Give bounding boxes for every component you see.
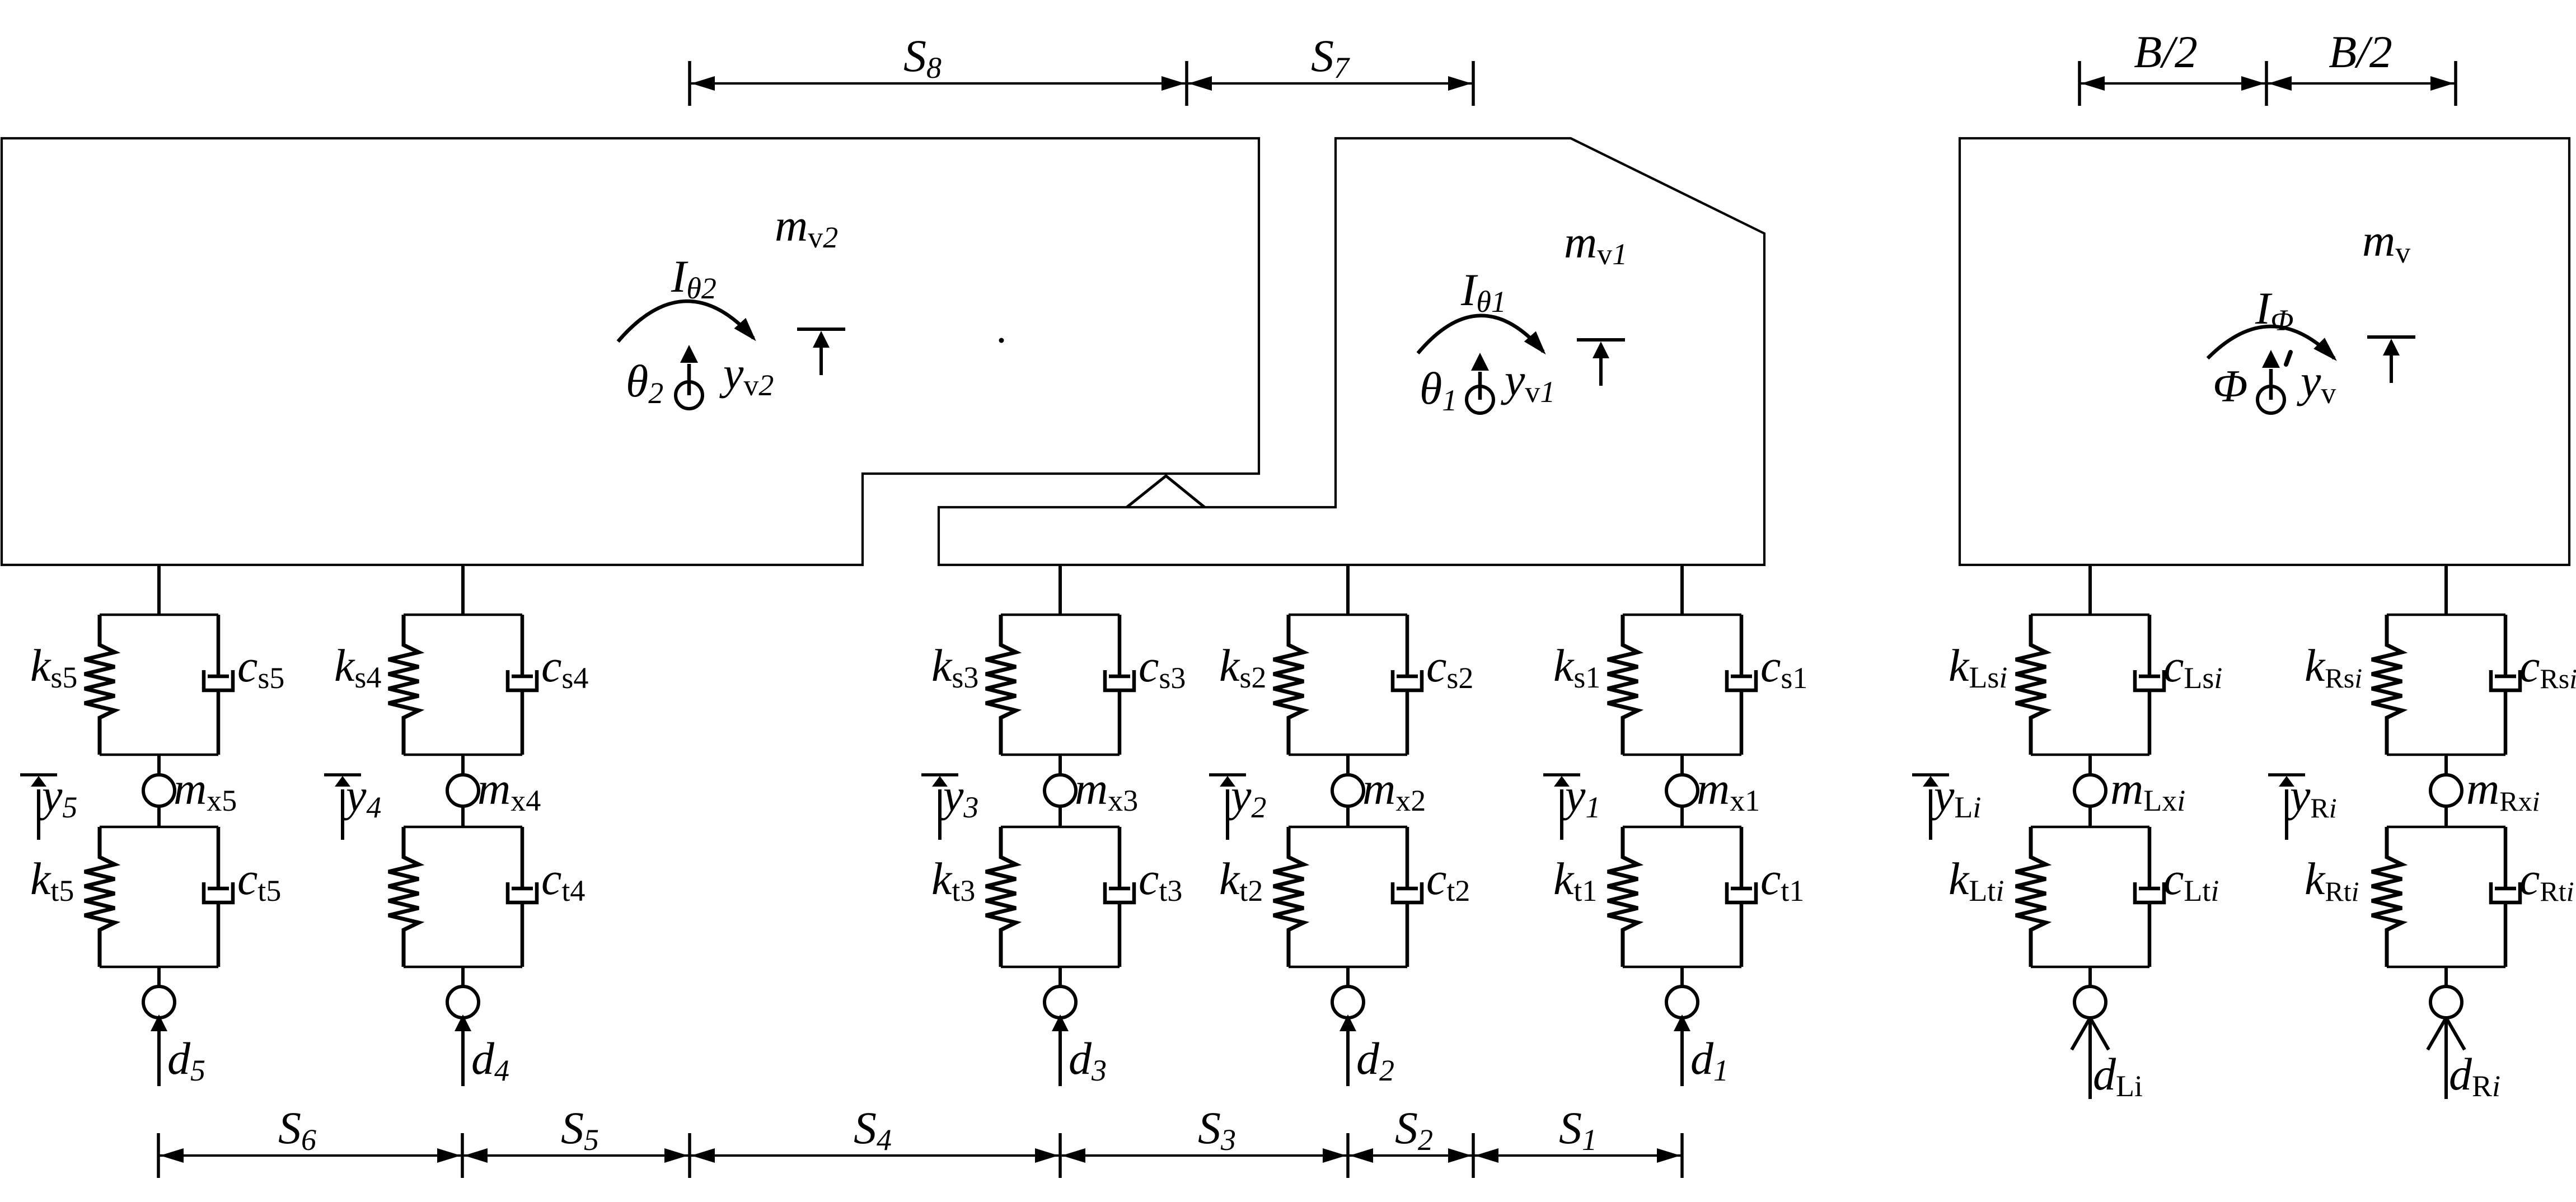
road input arrow d_Li (2072, 1018, 2109, 1099)
inertia arc I_θ2 (618, 301, 756, 342)
pivot node θ1 (c.g. circle with vertical arrow) (1467, 353, 1493, 413)
vehicle body m_v2 (trailer sprung mass) (2, 138, 1259, 565)
label d_Ri (2449, 1049, 2500, 1103)
label c_axle5_s (237, 640, 284, 695)
vehicle body m_v (2D half-car sprung mass) (1960, 138, 2569, 565)
label c_axle4_t (541, 853, 585, 908)
wire axle5 body-to-suspension (157, 565, 161, 615)
label c_axle1_s (1760, 640, 1807, 695)
wire Li body-to-suspension (2088, 565, 2092, 615)
label c_axle2_s (1426, 640, 1473, 695)
wire axle4 box-to-axle-mass (461, 755, 465, 775)
displacement arrow y_axle4 (with datum bar) (324, 775, 361, 840)
label m_Ri (2466, 763, 2540, 817)
label d_axle5 (167, 1033, 205, 1087)
wire axle3 axle-mass-to-tire (1058, 806, 1062, 827)
reference datum mark in body θ1 (1577, 340, 1625, 386)
damper c (Ri tire damper) (2491, 827, 2520, 967)
damper c (axle4 tire damper) (508, 827, 537, 967)
label k_axle2_s (1219, 640, 1266, 694)
label d_axle3 (1069, 1033, 1107, 1087)
inertia arc I_θ1 (1418, 316, 1546, 355)
label m_axle1 (1697, 763, 1760, 817)
label k_Ri_s (2305, 640, 2362, 694)
contact node Ri (road contact circle) (2430, 986, 2462, 1018)
label y_axle2 (1227, 770, 1266, 824)
svg-text:B/2: B/2 (2134, 26, 2198, 77)
reference datum mark in body θ2 (797, 329, 845, 375)
road input arrow d_axle2 (1339, 1014, 1356, 1086)
road input arrow d_axle5 (151, 1014, 167, 1086)
spring k (Li suspension spring) (2016, 615, 2046, 755)
wire axle3 body-to-suspension (1058, 565, 1062, 615)
inertia arc I_Φ (2208, 326, 2337, 361)
wire axle5 axle-mass-to-tire (157, 806, 161, 827)
vehicle body m_v1 (tractor sprung mass) (939, 138, 1764, 565)
tire box Li (top/bottom rails) (2031, 827, 2149, 967)
label c_Li_t (2163, 853, 2219, 908)
label B/2 (right) (2329, 26, 2392, 77)
svg-text:Φ: Φ (2213, 361, 2247, 411)
road input arrow d_Ri (2428, 1018, 2465, 1099)
label S_5 (561, 1102, 599, 1157)
label m (θ2 body mass) (775, 200, 838, 254)
label c_axle1_t (1760, 853, 1804, 908)
label c_axle3_s (1139, 640, 1186, 695)
label y_Φ (2297, 356, 2336, 410)
wire axle1 tire-to-contact (1680, 967, 1684, 986)
wire axle2 axle-mass-to-tire (1346, 806, 1350, 827)
label m_Li (2110, 763, 2185, 817)
wire Ri body-to-suspension (2444, 565, 2448, 615)
label m (θ1 body mass) (1564, 217, 1627, 271)
label m_axle5 (174, 763, 237, 817)
damper c (Ri suspension damper) (2491, 615, 2520, 755)
displacement arrow y_axle1 (with datum bar) (1543, 775, 1580, 840)
contact node Li (road contact circle) (2074, 986, 2106, 1018)
spring k (Ri tire spring) (2372, 827, 2402, 967)
label d_Li (2093, 1049, 2143, 1103)
spring k (axle2 suspension spring) (1273, 615, 1304, 755)
fifth-wheel coupling between m_v1 and m_v2 (1127, 476, 1205, 507)
label d_axle1 (1690, 1033, 1729, 1087)
label y_θ2 (719, 348, 774, 402)
damper c (axle3 tire damper) (1105, 827, 1134, 967)
road input arrow d_axle4 (455, 1014, 471, 1086)
contact node axle4 (road contact circle) (447, 986, 479, 1018)
suspension box Ri (top/bottom rails) (2387, 615, 2505, 755)
axle mass m_Li (unsprung mass node) (2074, 775, 2106, 806)
label k_axle4_s (334, 640, 381, 694)
contact node axle3 (road contact circle) (1045, 986, 1076, 1018)
dimension line S8/S7 (with end ticks) (690, 61, 1473, 106)
tire box axle2 (top/bottom rails) (1289, 827, 1407, 967)
label B/2 (left) (2134, 26, 2198, 77)
dimension line S6..S1 (with ticks) (158, 1133, 1682, 1178)
axle mass m_axle1 (unsprung mass node) (1666, 775, 1698, 806)
road input arrow d_axle1 (1674, 1014, 1690, 1086)
contact node axle5 (road contact circle) (143, 986, 175, 1018)
label m_axle3 (1075, 763, 1138, 817)
spring k (Li tire spring) (2016, 827, 2046, 967)
label y_axle1 (1561, 770, 1600, 824)
wire axle1 box-to-axle-mass (1680, 755, 1684, 775)
pivot node θ2 (c.g. circle with vertical arrow) (676, 345, 702, 409)
label S_1 (1559, 1102, 1597, 1157)
label d_axle4 (471, 1033, 509, 1087)
wire axle3 tire-to-contact (1058, 967, 1062, 986)
tire box axle1 (top/bottom rails) (1623, 827, 1741, 967)
wire Li box-to-axle-mass (2088, 755, 2092, 775)
displacement arrow y_Ri (with datum bar) (2268, 775, 2305, 840)
label y_axle3 (939, 770, 978, 824)
contact node axle2 (road contact circle) (1332, 986, 1364, 1018)
spring k (axle1 tire spring) (1608, 827, 1638, 967)
displacement arrow y_Li (with datum bar) (1912, 775, 1949, 840)
damper c (axle1 tire damper) (1727, 827, 1756, 967)
wire axle1 axle-mass-to-tire (1680, 806, 1684, 827)
label y_Ri (2286, 770, 2337, 824)
wire axle1 body-to-suspension (1680, 565, 1684, 615)
suspension box axle5 (top/bottom rails) (100, 615, 218, 755)
suspension box axle4 (top/bottom rails) (404, 615, 522, 755)
label θ (1420, 363, 1457, 417)
axle mass m_axle3 (unsprung mass node) (1045, 775, 1076, 806)
label k_axle2_t (1219, 853, 1263, 908)
suspension box Li (top/bottom rails) (2031, 615, 2149, 755)
label I_θ1 (1460, 264, 1506, 319)
axle mass m_axle5 (unsprung mass node) (143, 775, 175, 806)
suspension box axle1 (top/bottom rails) (1623, 615, 1741, 755)
label c_Ri_t (2519, 853, 2574, 907)
label S_8 (903, 30, 942, 85)
wire axle2 tire-to-contact (1346, 967, 1350, 986)
spring k (axle4 tire spring) (388, 827, 419, 967)
damper c (axle4 suspension damper) (508, 615, 537, 755)
spring k (axle5 tire spring) (85, 827, 115, 967)
wire axle3 box-to-axle-mass (1058, 755, 1062, 775)
spring k (axle1 suspension spring) (1608, 615, 1638, 755)
dimension line B/2 B/2 (with end ticks) (2079, 61, 2456, 106)
spring k (axle2 tire spring) (1273, 827, 1304, 967)
wire axle5 tire-to-contact (157, 967, 161, 986)
label S_2 (1395, 1102, 1433, 1157)
label S_7 (1311, 30, 1350, 85)
damper c (axle2 tire damper) (1393, 827, 1422, 967)
label S_3 (1198, 1102, 1236, 1157)
damper c (axle1 suspension damper) (1727, 615, 1756, 755)
label c_Ri_s (2519, 640, 2576, 694)
label k_Ri_t (2305, 853, 2359, 907)
label d_axle2 (1356, 1033, 1394, 1087)
label y_Li (1930, 770, 1981, 824)
label I_Φ (2255, 283, 2293, 337)
damper c (Li suspension damper) (2135, 615, 2164, 755)
axle mass m_Ri (unsprung mass node) (2430, 775, 2462, 806)
damper c (axle5 tire damper) (204, 827, 233, 967)
displacement arrow y_axle2 (with datum bar) (1209, 775, 1246, 840)
label c_axle3_t (1139, 853, 1182, 908)
wire axle4 tire-to-contact (461, 967, 465, 986)
suspension box axle2 (top/bottom rails) (1289, 615, 1407, 755)
wire Ri tire-to-contact (2444, 967, 2448, 986)
wire Li axle-mass-to-tire (2088, 806, 2092, 827)
label c_axle5_t (237, 853, 281, 908)
label c_Li_s (2163, 640, 2222, 695)
label y_axle5 (38, 770, 77, 824)
label y_θ1 (1501, 354, 1555, 409)
label k_axle1_t (1553, 853, 1597, 908)
label S_4 (854, 1102, 892, 1157)
suspension box axle3 (top/bottom rails) (1001, 615, 1120, 755)
wire axle2 body-to-suspension (1346, 565, 1350, 615)
label m_axle4 (477, 763, 541, 817)
reference datum mark in body Φ (2367, 337, 2415, 383)
label Φ (2213, 361, 2247, 411)
spring k (Ri suspension spring) (2372, 615, 2402, 755)
tire box axle5 (top/bottom rails) (100, 827, 218, 967)
damper c (axle3 suspension damper) (1105, 615, 1134, 755)
damper c (axle2 suspension damper) (1393, 615, 1422, 755)
label k_Li_t (1949, 853, 2004, 908)
svg-text:B/2: B/2 (2329, 26, 2392, 77)
label m_axle2 (1362, 763, 1426, 817)
axle mass m_axle4 (unsprung mass node) (447, 775, 479, 806)
damper c (axle5 suspension damper) (204, 615, 233, 755)
label k_Li_s (1949, 640, 2007, 694)
spring k (axle5 suspension spring) (85, 615, 115, 755)
spring k (axle3 tire spring) (986, 827, 1016, 967)
wire Li tire-to-contact (2088, 967, 2092, 986)
wire axle4 axle-mass-to-tire (461, 806, 465, 827)
road input arrow d_axle3 (1052, 1014, 1069, 1086)
tire box Ri (top/bottom rails) (2387, 827, 2505, 967)
label m (Φ body mass) (2362, 215, 2410, 269)
label k_axle3_s (931, 640, 978, 694)
damper c (Li tire damper) (2135, 827, 2164, 967)
stray dot mark (999, 338, 1004, 343)
wire axle2 box-to-axle-mass (1346, 755, 1350, 775)
spring k (axle3 suspension spring) (986, 615, 1016, 755)
contact node axle1 (road contact circle) (1666, 986, 1698, 1018)
wire axle5 box-to-axle-mass (157, 755, 161, 775)
label k_axle3_t (931, 853, 975, 908)
label S_6 (278, 1102, 316, 1157)
spring k (axle4 suspension spring) (388, 615, 419, 755)
axle mass m_axle2 (unsprung mass node) (1332, 775, 1364, 806)
label c_axle2_t (1426, 853, 1470, 908)
tire box axle3 (top/bottom rails) (1001, 827, 1120, 967)
wire Ri box-to-axle-mass (2444, 755, 2448, 775)
pivot node Φ (c.g. circle with vertical arrow) (2257, 350, 2291, 413)
displacement arrow y_axle5 (with datum bar) (20, 775, 57, 840)
label y_axle4 (342, 770, 381, 824)
tire box axle4 (top/bottom rails) (404, 827, 522, 967)
wire axle4 body-to-suspension (461, 565, 465, 615)
label c_axle4_s (541, 640, 588, 695)
label k_axle5_t (30, 853, 74, 908)
displacement arrow y_axle3 (with datum bar) (921, 775, 958, 840)
label θ (626, 356, 663, 410)
label k_axle1_s (1553, 640, 1600, 694)
label k_axle5_s (30, 640, 77, 694)
wire Ri axle-mass-to-tire (2444, 806, 2448, 827)
label I_θ2 (671, 251, 716, 305)
